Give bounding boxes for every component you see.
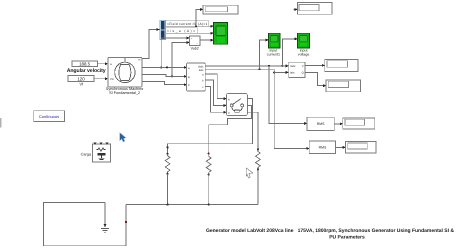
- signal label box Field current: [166, 21, 209, 27]
- wire R3 bottom lead: [257, 169, 259, 204]
- wire phase B tap up to Vab2 input 2: [171, 41, 190, 78]
- svg-text:Carga: Carga: [81, 152, 92, 156]
- resistor R2: [206, 154, 211, 175]
- signal label box is_a: [166, 28, 197, 33]
- label input voltage: [298, 49, 310, 57]
- svg-text:Iabc: Iabc: [199, 69, 205, 72]
- svg-text:120: 120: [77, 76, 85, 81]
- svg-text:Iabc: Iabc: [290, 72, 296, 75]
- display block D1: [203, 5, 238, 14]
- wire Vabc to PQ block: [205, 64, 289, 67]
- wire machine phase C to VI measurement: [142, 82, 187, 87]
- machine label: [106, 87, 144, 95]
- svg-text:RMS: RMS: [317, 122, 325, 126]
- svg-text:Pm: Pm: [110, 78, 114, 81]
- svg-text:Generator model LabVolt 208Vca: Generator model LabVolt 208Vca line 175V…: [206, 228, 454, 234]
- wire constant 120 to machine input: [94, 77, 108, 80]
- wire breaker a to resistor R1: [167, 99, 253, 153]
- wire Q to display4: [305, 72, 327, 87]
- wire VI out b to breaker B: [205, 80, 227, 107]
- svg-text:Vabc: Vabc: [198, 65, 204, 68]
- svg-text:B: B: [188, 76, 190, 79]
- bus selector: [160, 20, 166, 39]
- svg-text:C: C: [228, 112, 230, 115]
- svg-text:-: -: [197, 41, 198, 45]
- resistor R1: [165, 153, 170, 175]
- display block D5: [343, 118, 375, 129]
- constant block 188.5: [72, 61, 98, 67]
- wire R2 bottom lead: [208, 174, 210, 204]
- synchronous machine block U1: [108, 57, 142, 87]
- constant block 120: [68, 76, 94, 82]
- wire breaker c to resistor R3: [247, 112, 258, 149]
- Vab2 block: [189, 36, 200, 46]
- Carga load block: [92, 143, 110, 163]
- blue mouse cursor: [120, 133, 126, 142]
- wire ground stub: [104, 202, 107, 227]
- RMS block 2: [309, 141, 335, 153]
- svg-text:current1: current1: [267, 53, 280, 57]
- wire phase A tap up to Vab2 input 1: [160, 37, 190, 69]
- resistor R3: [255, 148, 260, 170]
- ground symbol: [101, 229, 109, 233]
- svg-text:m: m: [138, 59, 140, 62]
- wire tap up to display1: [196, 8, 203, 26]
- three-phase VI measurement block: [187, 63, 206, 91]
- wire Vab2 to scope: [200, 39, 214, 42]
- RMS block 1: [307, 117, 334, 130]
- display block D6: [346, 142, 377, 153]
- wire tap down to RMS1: [269, 66, 307, 125]
- scope input voltage (green): [298, 33, 310, 48]
- svg-text:Continuous: Continuous: [39, 114, 59, 119]
- wire machine m output up to bus selector: [142, 28, 160, 58]
- wire machine phase B to VI measurement: [142, 75, 187, 78]
- wire P to display3: [305, 64, 325, 67]
- display block D3 (P): [325, 59, 358, 71]
- svg-text:voltage: voltage: [298, 53, 310, 57]
- wire tap up to input current scope: [260, 39, 269, 70]
- three-phase breaker block: [226, 93, 247, 115]
- svg-text:Angular velocity: Angular velocity: [67, 68, 106, 74]
- wire VI out a to breaker A: [205, 74, 227, 100]
- svg-text:w: w: [110, 63, 112, 66]
- wire neutral loop: [43, 202, 127, 245]
- wire machine phase A to VI measurement: [142, 66, 187, 69]
- svg-text:PU Parameters: PU Parameters: [329, 235, 365, 241]
- wire branch Iabc into PQ block: [274, 71, 289, 74]
- svg-text:188.5: 188.5: [79, 61, 91, 66]
- label input current1: [267, 49, 280, 57]
- gray mouse cursor: [246, 168, 253, 178]
- wire constant 188.5 to machine w input: [98, 62, 109, 65]
- wire breaker b to resistor R2: [208, 105, 252, 154]
- wire RMS2 to display6: [336, 146, 346, 149]
- svg-text:A: A: [228, 98, 230, 101]
- wire R1 bottom lead: [167, 174, 169, 205]
- svg-text:Q: Q: [302, 72, 304, 75]
- wire bus selector out2 to scope: [166, 32, 214, 35]
- display block D4 (Q): [326, 80, 361, 92]
- svg-text:C: C: [188, 84, 190, 87]
- svg-text:Vab2: Vab2: [191, 46, 199, 50]
- svg-text:P: P: [302, 65, 304, 68]
- wire tap up to input voltage scope: [282, 37, 298, 65]
- wire VI out c to breaker C: [205, 87, 227, 114]
- wire neutral rail: [126, 204, 258, 206]
- PQ power measurement block: [289, 62, 305, 77]
- svg-text:SI Fundamental_2: SI Fundamental_2: [109, 91, 140, 95]
- wire RMS1 to display5: [334, 122, 343, 125]
- svg-text:Vabc: Vabc: [290, 65, 296, 68]
- left edge window fragment: [0, 118, 2, 128]
- svg-text:A: A: [188, 67, 190, 70]
- svg-text:<Field current ifd (A)>1: <Field current ifd (A)>1: [167, 22, 208, 26]
- wire Iabc toward PQ and down: [205, 68, 310, 150]
- display block D2 top right: [294, 3, 332, 15]
- scope input current1 (green): [269, 33, 280, 48]
- svg-text:RMS: RMS: [319, 146, 327, 150]
- scope block (big green): [214, 23, 228, 45]
- wire bus selector out1 to scope: [166, 25, 214, 28]
- powergui Continuous block: [34, 111, 65, 122]
